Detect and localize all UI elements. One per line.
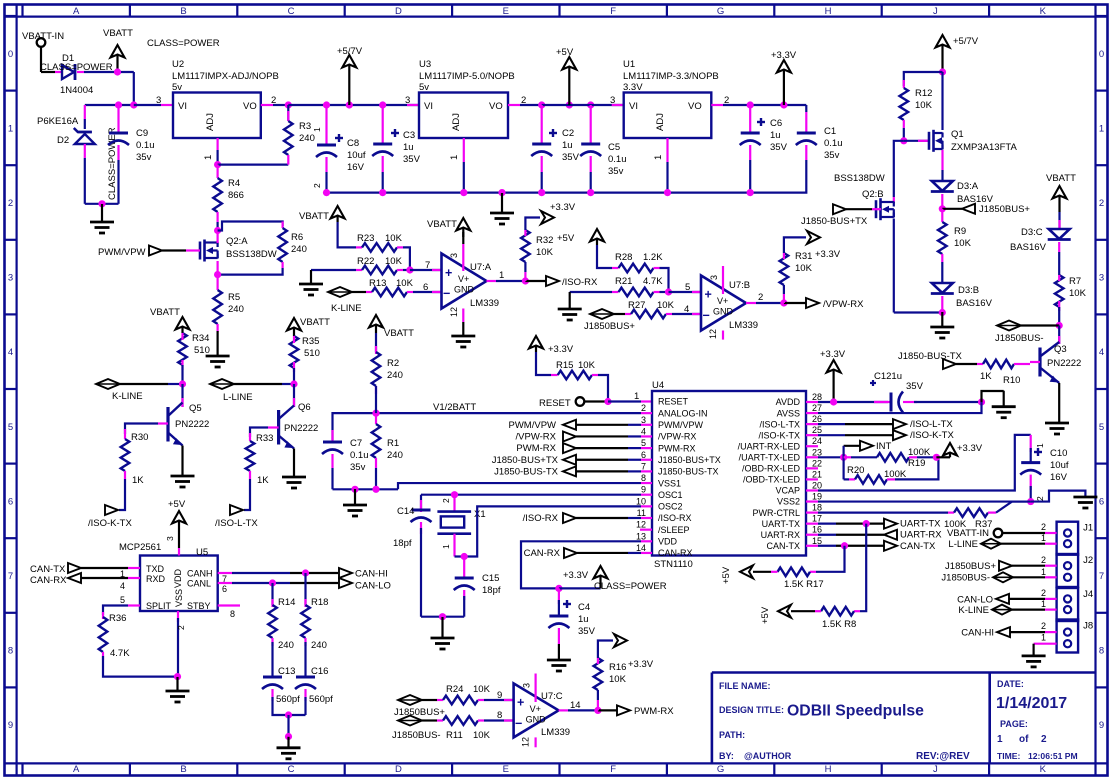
- svg-text:3: 3: [709, 275, 719, 280]
- svg-text:/VPW-RX: /VPW-RX: [516, 431, 557, 442]
- svg-text:240: 240: [299, 133, 315, 144]
- svg-text:2: 2: [521, 95, 526, 106]
- svg-text:PATH:: PATH:: [719, 730, 745, 740]
- svg-text:18pf: 18pf: [393, 538, 412, 549]
- power flag +5V: [568, 66, 570, 105]
- svg-text:240: 240: [278, 640, 294, 651]
- resistor R14 240: [271, 583, 273, 605]
- svg-text:240: 240: [387, 370, 403, 381]
- svg-text:510: 510: [304, 348, 320, 359]
- power flag +3.3V AVDD: [832, 369, 834, 390]
- svg-text:9: 9: [1099, 720, 1104, 731]
- svg-text:SPLIT: SPLIT: [146, 601, 172, 611]
- svg-text:4: 4: [641, 426, 646, 436]
- op-amp U7:B LM339: [701, 276, 746, 331]
- svg-text:K-LINE: K-LINE: [331, 303, 362, 314]
- svg-text:VSS2: VSS2: [777, 497, 800, 507]
- wire CANL pin6: [218, 582, 232, 584]
- svg-text:RXD: RXD: [146, 574, 166, 584]
- svg-text:+5V: +5V: [168, 499, 186, 510]
- junction: [302, 569, 309, 576]
- svg-text:R28: R28: [615, 252, 632, 263]
- svg-text:2: 2: [1099, 198, 1104, 209]
- svg-text:7: 7: [1099, 571, 1104, 582]
- connector J4: [1057, 588, 1079, 621]
- ground: [1022, 655, 1046, 658]
- svg-text:J1850BUS+: J1850BUS+: [394, 707, 445, 718]
- svg-text:/ISO-L-TX: /ISO-L-TX: [910, 419, 953, 430]
- output flag /ISO-L-TX pin26: [806, 423, 818, 425]
- svg-text:100K: 100K: [884, 469, 907, 480]
- svg-text:J1850-BUS+TX: J1850-BUS+TX: [658, 455, 721, 465]
- wire: [84, 71, 134, 73]
- power flag +5V U5: [178, 520, 180, 548]
- svg-text:12:06:51 PM: 12:06:51 PM: [1028, 751, 1078, 761]
- svg-text:R13: R13: [369, 278, 386, 289]
- svg-text:REV:@REV: REV:@REV: [916, 751, 970, 762]
- svg-text:INT: INT: [876, 441, 892, 452]
- svg-text:10K: 10K: [396, 278, 414, 289]
- svg-text:25: 25: [812, 425, 822, 435]
- svg-text:6: 6: [423, 282, 428, 293]
- svg-text:16V: 16V: [347, 162, 365, 173]
- svg-text:GND: GND: [713, 307, 734, 317]
- svg-text:J1850-BUS+TX: J1850-BUS+TX: [492, 455, 559, 466]
- svg-text:1: 1: [634, 391, 639, 402]
- svg-text:5v: 5v: [419, 82, 429, 93]
- svg-text:TIME:: TIME:: [997, 751, 1021, 761]
- svg-text:35V: 35V: [770, 142, 788, 153]
- junction: [372, 410, 379, 417]
- svg-text:2: 2: [1041, 555, 1046, 565]
- svg-text:8: 8: [230, 609, 235, 619]
- svg-text:RESET: RESET: [539, 398, 571, 409]
- resistor R6 240: [218, 222, 283, 231]
- resistor R21 4.7K: [570, 291, 612, 293]
- svg-text:−: −: [703, 309, 710, 323]
- svg-text:+3.3V: +3.3V: [771, 50, 797, 61]
- svg-text:R15: R15: [556, 360, 573, 371]
- svg-text:UART-TX: UART-TX: [762, 519, 800, 529]
- svg-text:PN2222: PN2222: [1047, 358, 1081, 369]
- junction: [522, 277, 529, 284]
- input flag J1850-BUS+TX: [833, 204, 846, 214]
- svg-text:5: 5: [1099, 422, 1104, 433]
- resistor R32 10K: [524, 272, 526, 281]
- svg-text:/ISO-RX: /ISO-RX: [658, 513, 692, 523]
- svg-text:+3.3V: +3.3V: [563, 570, 589, 581]
- svg-text:+3.3V: +3.3V: [820, 349, 846, 360]
- svg-text:D: D: [395, 764, 402, 775]
- svg-text:VBATT: VBATT: [103, 28, 133, 39]
- svg-text:21: 21: [812, 469, 822, 479]
- junction: [665, 288, 672, 295]
- svg-text:R27: R27: [628, 300, 645, 311]
- svg-text:R33: R33: [256, 433, 273, 444]
- svg-text:8: 8: [8, 646, 13, 657]
- diode D3:B BAS16V: [932, 283, 953, 293]
- svg-text:4: 4: [120, 581, 125, 591]
- svg-text:VDD: VDD: [658, 537, 678, 547]
- wire V1/2BATT pin2: [641, 412, 652, 414]
- svg-text:2: 2: [641, 403, 646, 413]
- svg-text:35V: 35V: [403, 154, 421, 165]
- svg-text:J4: J4: [1083, 589, 1093, 600]
- svg-text:PWM-RX: PWM-RX: [658, 443, 696, 453]
- op-amp U7:C LM339: [514, 683, 559, 737]
- flag UART-TX: [884, 519, 897, 529]
- svg-text:/ISO-L-TX: /ISO-L-TX: [759, 419, 800, 429]
- svg-text:VSS: VSS: [174, 589, 184, 607]
- ground bus: [327, 192, 751, 194]
- resistor R5 240: [217, 275, 219, 290]
- svg-text:VI: VI: [629, 101, 638, 112]
- svg-text:PWR-CTRL: PWR-CTRL: [753, 508, 801, 518]
- svg-text:15: 15: [812, 536, 822, 546]
- svg-text:4.7K: 4.7K: [643, 276, 663, 287]
- svg-text:3: 3: [156, 95, 161, 106]
- svg-text:R10: R10: [1003, 375, 1020, 386]
- bidir flag K-LINE 2: [328, 287, 352, 297]
- svg-text:K: K: [1040, 6, 1047, 17]
- svg-text:R6: R6: [291, 232, 303, 243]
- svg-text:9: 9: [8, 720, 13, 731]
- svg-text:14: 14: [636, 543, 646, 553]
- resistor R13 10K: [366, 291, 372, 293]
- svg-text:Q3: Q3: [1054, 344, 1067, 355]
- svg-text:CLASS=POWER: CLASS=POWER: [107, 127, 118, 200]
- svg-text:U7:C: U7:C: [541, 691, 563, 702]
- svg-text:1: 1: [499, 270, 504, 281]
- svg-text:1: 1: [449, 155, 460, 160]
- svg-text:VDD: VDD: [173, 568, 183, 588]
- output flag CAN-LO: [339, 578, 352, 588]
- svg-text:3: 3: [165, 536, 175, 541]
- svg-text:23: 23: [812, 447, 822, 457]
- svg-text:8: 8: [497, 710, 502, 721]
- svg-text:3: 3: [8, 273, 13, 284]
- svg-text:D2: D2: [57, 135, 69, 146]
- svg-text:9: 9: [641, 485, 646, 495]
- power flag +5/7V: [348, 64, 350, 105]
- power flag +3.3V R15: [535, 345, 537, 352]
- svg-text:+3.3V: +3.3V: [957, 443, 983, 454]
- svg-text:/UART-TX-LED: /UART-TX-LED: [739, 453, 801, 463]
- svg-text:K-LINE: K-LINE: [958, 605, 989, 616]
- svg-text:10: 10: [636, 496, 646, 506]
- svg-text:ODBII Speedpulse: ODBII Speedpulse: [787, 703, 924, 720]
- pin 1 ADJ: [217, 138, 219, 150]
- resistor R17 1.5K: [816, 546, 845, 572]
- pin 5 SPLIT R36: [128, 604, 140, 606]
- svg-text:510: 510: [194, 345, 210, 356]
- resistor R15 10K: [536, 352, 551, 375]
- svg-text:28: 28: [812, 392, 822, 402]
- svg-text:2: 2: [441, 498, 451, 503]
- svg-text:10K: 10K: [578, 360, 596, 371]
- ground: [217, 331, 219, 356]
- svg-text:of: of: [1019, 734, 1029, 745]
- ground: [101, 204, 103, 222]
- wire AVSS pin27: [806, 412, 818, 414]
- svg-text:ADJ: ADJ: [451, 113, 462, 131]
- wire: [421, 616, 464, 618]
- svg-text:+5/7V: +5/7V: [337, 46, 363, 57]
- svg-text:C2: C2: [562, 128, 574, 139]
- ground: [941, 312, 943, 327]
- svg-text:J1: J1: [1083, 523, 1093, 534]
- mosfet Q2:B BSS138DW: [893, 197, 895, 203]
- svg-text:VBATT: VBATT: [384, 328, 414, 339]
- pin 21 stub: [806, 478, 818, 480]
- junction: [933, 454, 940, 461]
- capacitor C6 1u: [749, 105, 751, 133]
- capacitor C1 0.1u: [805, 105, 807, 112]
- capacitor C4 1u: [558, 588, 560, 604]
- svg-text:−: −: [443, 287, 450, 301]
- power flag VBATT: [116, 54, 118, 72]
- svg-text:VO: VO: [688, 101, 702, 112]
- svg-text:+3.3V: +3.3V: [550, 202, 576, 213]
- junction: [840, 454, 847, 461]
- svg-text:CAN-HI: CAN-HI: [355, 569, 388, 580]
- svg-text:1: 1: [1035, 443, 1045, 448]
- svg-text:14: 14: [570, 700, 581, 711]
- capacitor C15 18pf: [463, 557, 465, 579]
- wire: [218, 164, 289, 166]
- svg-text:R19: R19: [908, 458, 925, 469]
- svg-text:R5: R5: [228, 292, 240, 303]
- svg-text:13: 13: [636, 531, 646, 541]
- svg-text:G: G: [717, 764, 724, 775]
- output flag /VPW-RX: [784, 302, 806, 304]
- capacitor C9: [117, 105, 119, 133]
- svg-text:PWM-RX: PWM-RX: [516, 443, 556, 454]
- connector J1: [1057, 522, 1079, 555]
- svg-text:D3:C: D3:C: [1021, 227, 1043, 238]
- wire emitter Q5: [181, 446, 183, 477]
- svg-text:2: 2: [758, 292, 763, 303]
- output flag /ISO-L-TX: [230, 505, 243, 515]
- op-amp U7:A LM339: [442, 254, 487, 309]
- svg-text:6: 6: [1099, 496, 1104, 507]
- svg-text:K: K: [1040, 764, 1047, 775]
- svg-text:VBATT-IN: VBATT-IN: [22, 31, 64, 42]
- svg-text:5: 5: [8, 422, 13, 433]
- svg-text:+: +: [517, 696, 524, 710]
- svg-text:PWM/VPW: PWM/VPW: [509, 420, 557, 431]
- svg-text:D3:B: D3:B: [958, 285, 979, 296]
- output flag /ISO-RX: [525, 280, 546, 282]
- svg-text:4: 4: [8, 347, 13, 358]
- IC U5 MCP2561: [140, 556, 218, 612]
- svg-text:V+: V+: [530, 704, 541, 714]
- svg-text:10K: 10K: [915, 100, 933, 111]
- svg-text:J1850-BUS-TX: J1850-BUS-TX: [658, 467, 719, 477]
- svg-text:CAN-TX: CAN-TX: [767, 541, 801, 551]
- svg-text:16: 16: [812, 525, 822, 535]
- pin 12 /SLEEP stub: [640, 529, 652, 531]
- svg-text:DATE:: DATE:: [997, 679, 1024, 689]
- svg-text:X1: X1: [474, 509, 486, 520]
- svg-text:1.5K R17: 1.5K R17: [784, 579, 824, 590]
- svg-text:R30: R30: [131, 432, 148, 443]
- junction: [98, 200, 105, 207]
- svg-text:PWM-RX: PWM-RX: [634, 706, 674, 717]
- svg-text:18pf: 18pf: [482, 585, 501, 596]
- svg-text:H: H: [825, 764, 832, 775]
- junction: [114, 68, 121, 75]
- mosfet Q2:A BSS138DW: [199, 242, 202, 260]
- wire R4 to Q2A: [214, 227, 221, 234]
- svg-text:VO: VO: [243, 101, 257, 112]
- svg-text:10K: 10K: [1069, 288, 1087, 299]
- resistor R12 10K: [904, 72, 943, 86]
- junction: [939, 309, 946, 316]
- svg-text:/ISO-K-TX: /ISO-K-TX: [88, 518, 132, 529]
- ground: [1031, 491, 1086, 502]
- power flag +3.3V: [783, 69, 785, 105]
- svg-text:10K: 10K: [657, 300, 675, 311]
- svg-text:5: 5: [120, 595, 125, 605]
- junction: [439, 613, 446, 620]
- resistor R27 10K: [625, 313, 631, 315]
- svg-text:2: 2: [1041, 522, 1046, 532]
- svg-text:+5V: +5V: [557, 233, 575, 244]
- svg-text:4: 4: [684, 304, 689, 315]
- resistor R2 240: [375, 333, 377, 352]
- resistor R8 1.5K: [860, 524, 866, 612]
- wire: [941, 72, 943, 130]
- svg-text:R23: R23: [357, 233, 374, 244]
- svg-text:J1850BUS+: J1850BUS+: [945, 561, 996, 572]
- ground: [287, 737, 289, 748]
- svg-text:R35: R35: [302, 336, 319, 347]
- svg-text:VBATT: VBATT: [1046, 173, 1076, 184]
- svg-text:10uf: 10uf: [1050, 460, 1069, 471]
- svg-text:/VPW-RX: /VPW-RX: [658, 432, 696, 442]
- resistor R22 10K: [311, 269, 356, 271]
- junction: [290, 380, 297, 387]
- svg-text:VO: VO: [489, 101, 503, 112]
- svg-text:3: 3: [449, 253, 459, 258]
- svg-text:3.3V: 3.3V: [623, 82, 643, 93]
- svg-text:1: 1: [1099, 123, 1104, 134]
- svg-text:8: 8: [641, 473, 646, 483]
- svg-text:D: D: [395, 6, 402, 17]
- svg-text:866: 866: [228, 190, 244, 201]
- pin 2 VSS: [177, 611, 179, 622]
- svg-text:Q2:A: Q2:A: [226, 236, 248, 247]
- svg-text:1.5K R8: 1.5K R8: [822, 619, 856, 630]
- flag UART-RX: [884, 530, 897, 540]
- svg-text:E: E: [503, 764, 509, 775]
- svg-text:1/14/2017: 1/14/2017: [996, 695, 1067, 712]
- svg-text:VBATT: VBATT: [150, 307, 180, 318]
- svg-text:L-LINE: L-LINE: [948, 539, 978, 550]
- svg-text:VBATT: VBATT: [300, 317, 330, 328]
- svg-text:240: 240: [228, 304, 244, 315]
- svg-text:R14: R14: [278, 597, 295, 608]
- resistor R31 10K: [783, 294, 785, 303]
- svg-text:24: 24: [812, 436, 822, 446]
- wire: [85, 72, 134, 105]
- svg-text:1u: 1u: [578, 614, 589, 625]
- ground: [354, 489, 356, 505]
- svg-text:3: 3: [641, 415, 646, 425]
- power flag +3.3V VDD: [559, 587, 601, 589]
- svg-text:11: 11: [637, 508, 646, 518]
- svg-text:/OBD-TX-LED: /OBD-TX-LED: [743, 475, 801, 485]
- power flag +3.3V R19: [936, 456, 950, 458]
- pin 3 VDD: [178, 548, 180, 556]
- svg-text:1: 1: [1041, 567, 1046, 577]
- resistor R9 10K: [941, 209, 943, 222]
- svg-text:1K: 1K: [980, 371, 992, 382]
- svg-text:E: E: [503, 6, 509, 17]
- svg-text:C5: C5: [608, 142, 620, 153]
- pin 24 stub: [806, 445, 818, 447]
- wire rail: [288, 104, 419, 106]
- wire PWR-CTRL pin18 R37: [806, 511, 818, 513]
- junction: [461, 553, 468, 560]
- svg-text:ZXMP3A13FTA: ZXMP3A13FTA: [951, 142, 1017, 153]
- wire emitter Q6: [293, 449, 295, 478]
- power flag +3.3V: [541, 211, 554, 224]
- svg-text:/OBD-RX-LED: /OBD-RX-LED: [742, 464, 801, 474]
- power flag +5V R8: [778, 605, 791, 618]
- svg-text:DESIGN TITLE:: DESIGN TITLE:: [719, 705, 784, 715]
- ground: [282, 476, 306, 479]
- svg-text:AVSS: AVSS: [777, 408, 800, 418]
- ground: [982, 391, 1004, 402]
- svg-text:16V: 16V: [1050, 472, 1068, 483]
- flag CAN-TX: [884, 541, 897, 551]
- svg-text:U4: U4: [652, 380, 664, 391]
- bidir flag J1850BUS+: [590, 309, 614, 319]
- svg-text:U2: U2: [172, 59, 184, 70]
- svg-text:+3.3V: +3.3V: [628, 659, 654, 670]
- svg-text:+3.3V: +3.3V: [548, 344, 574, 355]
- resistor R35 510: [290, 336, 299, 368]
- IC U4 STN1110: [652, 391, 806, 556]
- zener diode D2 P6KE16A: [84, 105, 86, 119]
- output flag PWM-RX: [598, 709, 617, 711]
- svg-text:CAN-RX: CAN-RX: [524, 548, 561, 559]
- capacitor C5 0.1u: [590, 105, 592, 144]
- svg-text:/ISO-K-TX: /ISO-K-TX: [910, 430, 954, 441]
- pin 12 GND: [462, 309, 464, 323]
- svg-text:240: 240: [387, 450, 403, 461]
- ground: [176, 677, 178, 691]
- svg-text:4.7K: 4.7K: [110, 648, 130, 659]
- svg-text:/UART-RX-LED: /UART-RX-LED: [738, 441, 801, 451]
- svg-text:+3.3V: +3.3V: [815, 249, 841, 260]
- junction: [538, 101, 545, 108]
- svg-text:+5V: +5V: [556, 47, 574, 58]
- svg-text:C13: C13: [278, 666, 295, 677]
- resistor R23 10K: [338, 222, 356, 247]
- svg-text:35v: 35v: [136, 152, 152, 163]
- svg-text:PAGE:: PAGE:: [1000, 719, 1028, 729]
- svg-text:VBATT: VBATT: [299, 211, 329, 222]
- svg-text:10K: 10K: [385, 233, 403, 244]
- junction: [978, 398, 985, 405]
- power flag +3.3V R31: [807, 231, 820, 244]
- svg-text:R1: R1: [387, 438, 399, 449]
- svg-text:240: 240: [291, 244, 307, 255]
- wire output pin2: [746, 302, 756, 304]
